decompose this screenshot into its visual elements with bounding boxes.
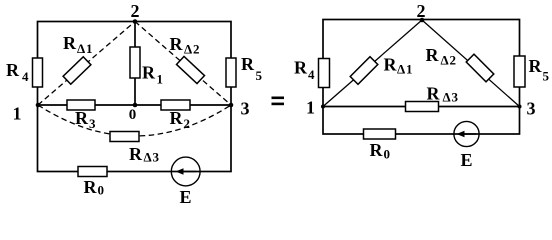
- resistor R1: [130, 47, 140, 78]
- source E left circle: [171, 157, 200, 186]
- wire: dashed arc node1-node3: [38, 105, 231, 136]
- svg-text:3: 3: [241, 99, 250, 119]
- label R2: [170, 108, 191, 131]
- svg-text:2: 2: [184, 116, 191, 131]
- wire: left circuit vertical 2-0: [134, 22, 136, 106]
- svg-text:0: 0: [129, 107, 137, 123]
- svg-text:R: R: [384, 55, 398, 75]
- node 3 junction dot: [229, 103, 234, 108]
- wire: right circuit outer rectangle: [323, 20, 520, 135]
- label R4 right: [294, 58, 315, 83]
- label R5 right: [529, 56, 550, 84]
- label R1: [142, 63, 164, 87]
- svg-text:R: R: [241, 54, 255, 74]
- svg-text:4: 4: [22, 69, 29, 84]
- svg-text:R: R: [142, 63, 156, 83]
- label RD1 left: [63, 33, 93, 56]
- resistor R0 left: [78, 167, 107, 177]
- label R5 left: [241, 54, 263, 83]
- svg-text:Δ1: Δ1: [397, 62, 413, 77]
- resistor R0 right: [364, 129, 396, 139]
- resistor R5 right: [514, 56, 525, 87]
- svg-text:1: 1: [13, 104, 22, 124]
- wire: left circuit outer rectangle: [38, 22, 232, 172]
- label R3: [75, 108, 96, 131]
- svg-text:R: R: [6, 60, 20, 80]
- label R0 left: [84, 177, 105, 198]
- svg-text:R: R: [370, 140, 384, 160]
- svg-text:1: 1: [306, 98, 315, 118]
- node 2 right junction dot: [420, 18, 425, 23]
- wire: right diagonal node1-node2: [323, 20, 422, 107]
- svg-text:R: R: [170, 108, 184, 128]
- svg-text:2: 2: [131, 1, 140, 21]
- svg-text:Δ3: Δ3: [443, 90, 459, 105]
- svg-text:Δ1: Δ1: [77, 41, 93, 56]
- resistor RD3 left: [110, 132, 139, 142]
- svg-text:2: 2: [417, 1, 426, 21]
- svg-text:Δ2: Δ2: [441, 53, 457, 68]
- svg-text:R: R: [170, 34, 184, 54]
- source E right circle: [454, 121, 479, 146]
- label RD2 right: [426, 45, 457, 68]
- svg-text:R: R: [529, 56, 543, 76]
- equals sign: [272, 97, 285, 106]
- label R4 left: [6, 60, 29, 84]
- svg-text:R: R: [75, 108, 89, 128]
- label RD3 left: [129, 144, 160, 165]
- wire: right diagonal node2-node3: [422, 20, 520, 107]
- svg-text:R: R: [129, 144, 143, 164]
- wire: dashed diagonal node2-node3: [135, 22, 231, 106]
- label RD3 right: [427, 84, 459, 105]
- svg-text:0: 0: [384, 147, 391, 162]
- node 0 junction dot: [133, 103, 138, 108]
- svg-text:R: R: [427, 84, 441, 104]
- svg-text:Δ3: Δ3: [144, 150, 160, 165]
- source E left arrow: [176, 168, 197, 175]
- resistor RD1 right (tilted): [350, 57, 378, 85]
- svg-text:R: R: [294, 58, 308, 78]
- svg-text:E: E: [461, 150, 473, 170]
- resistor R4 right: [319, 59, 330, 88]
- svg-text:3: 3: [527, 99, 536, 119]
- resistor RD2 left (tilted): [177, 56, 205, 83]
- wire: left circuit middle horizontal 1-0-3: [38, 104, 232, 106]
- svg-text:5: 5: [543, 69, 550, 84]
- node 2 junction dot: [133, 19, 138, 24]
- label RD1 right: [384, 55, 414, 77]
- resistor RD2 right (tilted): [466, 54, 494, 82]
- svg-text:Δ2: Δ2: [184, 42, 200, 57]
- svg-text:R: R: [63, 33, 77, 53]
- wire: right circuit horizontal 1-3: [323, 106, 520, 108]
- resistor R2: [161, 100, 190, 110]
- node 3 right junction dot: [518, 105, 522, 109]
- node 1 junction dot: [36, 103, 41, 108]
- svg-text:E: E: [180, 187, 192, 206]
- label RD2 left: [170, 34, 201, 57]
- svg-text:R: R: [84, 177, 98, 197]
- resistor R4: [33, 58, 43, 87]
- resistor RD1 left (tilted): [63, 57, 91, 84]
- resistor R5: [226, 58, 236, 87]
- svg-text:4: 4: [308, 67, 315, 82]
- svg-text:5: 5: [256, 68, 263, 83]
- svg-text:3: 3: [89, 116, 96, 131]
- svg-text:1: 1: [157, 72, 164, 87]
- resistor R3: [67, 100, 95, 110]
- svg-text:0: 0: [98, 183, 105, 198]
- svg-text:R: R: [426, 45, 440, 65]
- wire: dashed diagonal node1-node2: [38, 22, 135, 106]
- node 1 right junction dot: [321, 105, 325, 109]
- label R0 right: [370, 140, 391, 162]
- source E right arrow: [457, 131, 477, 137]
- resistor RD3 right: [406, 102, 439, 112]
